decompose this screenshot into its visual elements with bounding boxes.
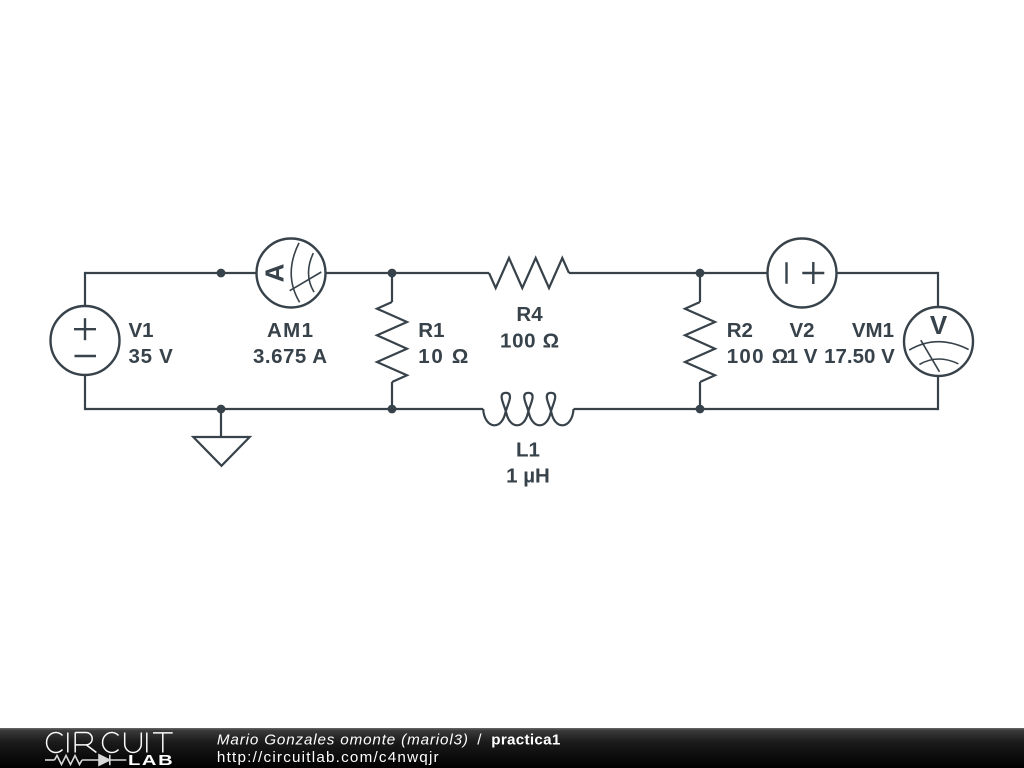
resistor R4 [489, 258, 569, 288]
svg-text:VM1: VM1 [852, 319, 894, 342]
V2 value label [787, 319, 818, 368]
svg-text:100 Ω: 100 Ω [500, 329, 559, 352]
svg-text:A: A [260, 263, 290, 282]
footer bar [0, 728, 1024, 768]
svg-text:V1: V1 [129, 319, 154, 342]
wire VM1 to bottom rail [937, 376, 939, 410]
svg-text:1 V: 1 V [787, 345, 818, 368]
wire R1 bottom stub [391, 382, 393, 409]
svg-text:3.675 A: 3.675 A [253, 345, 327, 368]
logo resistor squiggle and diode [45, 755, 126, 765]
svg-text:Mario Gonzales omonte (mariol3: Mario Gonzales omonte (mariol3) [217, 732, 468, 749]
wire top rail: AM1 to R4 [326, 272, 490, 274]
wire R2 bottom stub [699, 382, 701, 409]
svg-text:R1: R1 [418, 319, 444, 342]
voltage source V2 [768, 239, 837, 308]
svg-text:L1: L1 [516, 438, 540, 461]
svg-text:R4: R4 [516, 303, 543, 326]
wire V1 to bottom rail [84, 375, 86, 411]
wire bottom rail: L1 to bottom-right corner [574, 408, 939, 410]
node junction dot top rail x=392 [388, 269, 397, 278]
ground [193, 437, 249, 466]
V1 value label [129, 319, 174, 368]
svg-text:100 Ω: 100 Ω [727, 345, 789, 368]
node junction dot top rail x=700 [696, 269, 705, 278]
AM1 value label [253, 319, 327, 368]
svg-text:1 µH: 1 µH [506, 465, 550, 488]
R4 value label [500, 303, 559, 353]
CircuitLab logo word CIRCUIT [47, 732, 173, 752]
svg-text:35 V: 35 V [129, 345, 174, 368]
R1 value label [418, 319, 468, 368]
svg-text:AM1: AM1 [267, 319, 313, 342]
svg-text:LAB: LAB [128, 752, 174, 768]
svg-text:17.50 V: 17.50 V [824, 345, 895, 368]
resistor R2 [685, 302, 715, 382]
voltmeter VM1 [904, 307, 973, 376]
svg-text:http://circuitlab.com/c4nwqjr: http://circuitlab.com/c4nwqjr [217, 749, 439, 766]
wire top rail: R4 to V2 [569, 272, 768, 274]
wire left drop top to V1 [84, 272, 86, 307]
resistor R1 [377, 302, 407, 382]
wire ground stub [220, 409, 222, 437]
node junction dot bottom rail x=392 [388, 405, 397, 414]
VM1 value label [824, 319, 895, 368]
wire top rail: V2 to top-right corner [837, 272, 939, 274]
wire R2 top stub [699, 273, 701, 302]
svg-text:practica1: practica1 [491, 732, 561, 749]
svg-text:V2: V2 [789, 319, 814, 342]
wire right drop to VM1 [937, 272, 939, 307]
svg-text:R2: R2 [727, 319, 753, 342]
wire top rail: V1 corner to AM1 [85, 272, 257, 274]
wire R1 top stub [391, 273, 393, 302]
node junction dot bottom rail x=221 (ground) [217, 405, 226, 414]
R2 value label [727, 319, 789, 368]
voltage source V1 [51, 306, 120, 375]
node junction dot top rail x=221 [217, 269, 226, 278]
ammeter AM1 [257, 239, 326, 308]
wire bottom rail: left corner to L1 [85, 408, 483, 410]
svg-text:V: V [930, 310, 948, 340]
inductor L1 [483, 393, 573, 426]
L1 value label [506, 438, 550, 487]
node junction dot bottom rail x=700 [696, 405, 705, 414]
